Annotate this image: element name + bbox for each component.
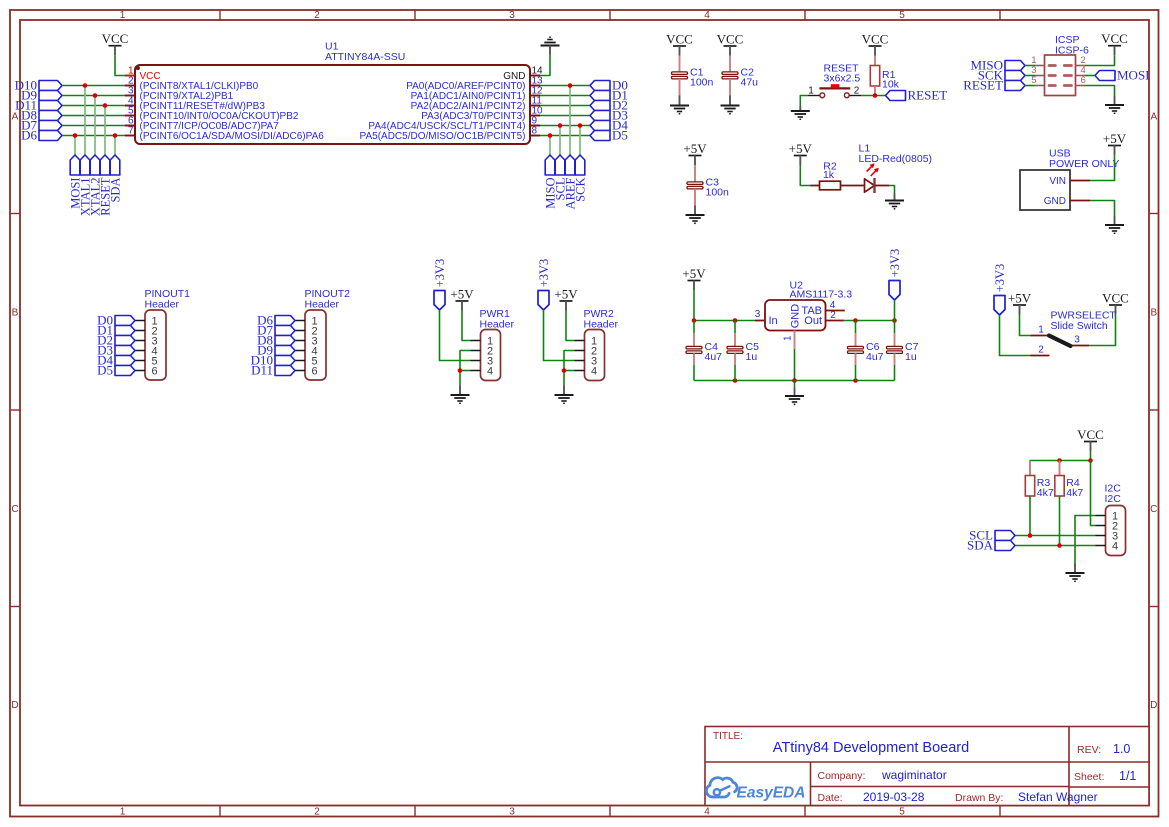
- svg-text:4k7: 4k7: [1066, 487, 1083, 499]
- svg-text:4: 4: [1112, 540, 1118, 552]
- wire U2 Out to +3V3 rail: [844, 320, 895, 322]
- ground (button): [791, 106, 810, 119]
- svg-text:POWER ONLY: POWER ONLY: [1049, 158, 1119, 170]
- svg-text:2: 2: [854, 85, 860, 96]
- power flag +5V (R2): [789, 141, 813, 165]
- net flag D7: [21, 118, 62, 133]
- U1 pin 12: [411, 86, 543, 102]
- wire VCC rail to R3/R4: [1030, 451, 1091, 476]
- ground (I2C): [1066, 564, 1085, 582]
- junction: [1028, 533, 1033, 538]
- svg-text:SDA: SDA: [967, 538, 994, 553]
- svg-text:I2C: I2C: [1105, 493, 1122, 505]
- svg-text:100n: 100n: [690, 76, 714, 88]
- connector I2C header: [1096, 483, 1126, 556]
- junction: [458, 368, 463, 373]
- power flag VCC (ICSP): [1101, 31, 1128, 55]
- svg-text:Header: Header: [145, 299, 180, 311]
- net flag D11: [15, 98, 62, 113]
- connector PWR1 Header: [471, 308, 515, 381]
- EasyEDA logo: [706, 778, 805, 802]
- svg-text:Stefan Wagner: Stefan Wagner: [1018, 790, 1098, 804]
- svg-text:Slide Switch: Slide Switch: [1051, 320, 1108, 332]
- svg-text:(PCINT6/OC1A/SDA/MOSI/DI/ADC6): (PCINT6/OC1A/SDA/MOSI/DI/ADC6)PA6: [140, 131, 325, 142]
- svg-text:SCK: SCK: [573, 178, 587, 202]
- net flag D4: [590, 118, 628, 133]
- wire D9 to U1: [62, 95, 125, 97]
- svg-text:EasyEDA: EasyEDA: [737, 784, 806, 801]
- svg-text:+3V3: +3V3: [537, 259, 551, 288]
- svg-text:wagiminator: wagiminator: [881, 768, 947, 782]
- svg-text:+5V: +5V: [450, 286, 474, 301]
- svg-text:AMS1117-3.3: AMS1117-3.3: [790, 289, 853, 301]
- junction: [733, 318, 738, 323]
- svg-text:4: 4: [487, 365, 493, 377]
- wire +5V to switch pin1: [1020, 315, 1031, 336]
- net flag D0 (PINOUT1): [97, 313, 135, 328]
- junction: [93, 93, 98, 98]
- wire SCK to ICSP: [1025, 75, 1035, 77]
- svg-text:Drawn By:: Drawn By:: [955, 792, 1003, 804]
- svg-text:1.0: 1.0: [1113, 742, 1130, 756]
- resistor R3 4k7: [1025, 461, 1054, 536]
- svg-text:5: 5: [1031, 75, 1036, 86]
- net flag D3: [590, 108, 628, 123]
- svg-text:+3V3: +3V3: [888, 249, 902, 278]
- junction: [113, 133, 118, 138]
- net flag D8 (PINOUT2): [257, 333, 295, 348]
- junction: [792, 378, 797, 383]
- power flag +3V3 (U2): [888, 249, 902, 300]
- svg-text:6: 6: [312, 365, 318, 377]
- power flag +3V3 (PWR1): [433, 259, 447, 310]
- junction: [103, 103, 108, 108]
- resistor R2 1k: [811, 161, 865, 190]
- U1 pin 14: [503, 66, 543, 82]
- wire stub to AREF flag: [569, 86, 571, 156]
- wire +5V to PWR1 pin1: [462, 311, 471, 341]
- regulator U2 AMS1117-3.3: [755, 280, 853, 349]
- svg-text:B: B: [1150, 308, 1157, 319]
- power flag +3V3 (PWRSELECT): [993, 264, 1007, 315]
- ground (USB): [1105, 216, 1124, 233]
- net flag D6: [21, 128, 62, 143]
- power flag +3V3 (PWR2): [537, 259, 551, 310]
- net flag MOSI (ICSP): [1095, 68, 1150, 83]
- junction: [853, 318, 858, 323]
- junction: [578, 123, 583, 128]
- svg-text:MOSI: MOSI: [1117, 68, 1150, 83]
- junction: [692, 318, 697, 323]
- wire SDA to I2C pin4: [1015, 545, 1096, 547]
- svg-text:2: 2: [1038, 345, 1044, 356]
- capacitor C2 47u: [722, 56, 758, 96]
- switch PWRSELECT Slide Switch: [1031, 309, 1117, 355]
- capacitor C6 4u7: [848, 333, 884, 365]
- power flag VCC (I2C): [1077, 427, 1104, 451]
- wire button pin2 to R1 and RESET flag: [861, 95, 886, 97]
- wire stub to MOSI flag: [74, 136, 76, 156]
- wire stub to SDA flag: [114, 136, 116, 156]
- svg-text:10k: 10k: [882, 79, 900, 91]
- net flag SCK (ICSP): [978, 68, 1025, 83]
- capacitor C5 1u: [727, 333, 759, 365]
- net flag D6 (PINOUT2): [257, 313, 295, 328]
- junction: [548, 133, 553, 138]
- ground (U2): [785, 381, 804, 405]
- resistor R4 4k7: [1055, 461, 1084, 546]
- svg-text:B: B: [12, 308, 19, 319]
- svg-text:VIN: VIN: [1049, 176, 1066, 187]
- svg-text:D: D: [11, 700, 18, 711]
- svg-text:2: 2: [830, 310, 836, 321]
- svg-text:4k7: 4k7: [1037, 487, 1054, 499]
- wire ICSP pin6 to ground: [1085, 86, 1115, 97]
- net flag XTAL2: [88, 155, 102, 216]
- svg-text:D11: D11: [251, 363, 273, 378]
- wire VCC to U1 pin 1: [115, 55, 125, 75]
- U1 pin 11: [411, 96, 543, 112]
- power flag +5V (PWR2): [554, 286, 578, 310]
- junction: [873, 93, 878, 98]
- svg-text:4: 4: [591, 365, 597, 377]
- net flag SCL: [553, 155, 567, 200]
- wire stub to RESET flag: [104, 106, 106, 156]
- svg-text:+3V3: +3V3: [993, 264, 1007, 293]
- wire +3V3 to PWR2 pin3: [544, 310, 575, 361]
- svg-text:D: D: [1150, 700, 1157, 711]
- wire +5V to R2: [800, 165, 810, 186]
- ground (C2): [721, 96, 740, 114]
- wire SCL to I2C pin3: [1015, 535, 1096, 537]
- wire MISO to ICSP: [1025, 65, 1035, 67]
- svg-text:+5V: +5V: [682, 266, 706, 281]
- connector USB POWER ONLY: [1020, 148, 1119, 210]
- wire C5 column: [734, 321, 736, 381]
- svg-text:47u: 47u: [741, 76, 759, 88]
- net flag SDA: [108, 155, 122, 203]
- svg-text:VCC: VCC: [666, 31, 693, 46]
- svg-text:+3V3: +3V3: [433, 259, 447, 288]
- U1 pin 13: [406, 76, 543, 92]
- svg-text:2019-03-28: 2019-03-28: [863, 790, 925, 804]
- net flag D11 (PINOUT2): [251, 363, 295, 378]
- net flag MOSI: [68, 155, 82, 209]
- wire ICSP pin4 to MOSI: [1085, 75, 1095, 77]
- junction: [568, 83, 573, 88]
- svg-text:Company:: Company:: [818, 770, 866, 782]
- svg-text:VCC: VCC: [1101, 31, 1128, 46]
- U1 pin 2: [125, 76, 259, 92]
- LED L1 LED-Red(0805): [859, 143, 933, 193]
- svg-text:VCC: VCC: [717, 31, 744, 46]
- net flag D1: [590, 88, 628, 103]
- net flag D2 (PINOUT1): [97, 333, 135, 348]
- net flag AREF: [563, 155, 577, 209]
- svg-text:4u7: 4u7: [866, 351, 884, 363]
- wire U1 pin 14 to ground: [540, 55, 550, 76]
- svg-text:1u: 1u: [746, 351, 758, 363]
- wire stub to SCL flag: [559, 126, 561, 156]
- power flag VCC (C2): [717, 31, 744, 55]
- wire U1 to D4: [540, 125, 590, 127]
- svg-text:3: 3: [755, 309, 761, 320]
- svg-text:C: C: [11, 504, 18, 515]
- power flag +5V (C3): [683, 141, 707, 165]
- wire +3V3 to PWR1 pin3: [440, 310, 471, 361]
- net flag D8: [21, 108, 62, 123]
- wire U1 to D2: [540, 105, 590, 107]
- power flag +5V (USB): [1103, 131, 1127, 155]
- wire U2 GND to ground bus: [794, 349, 796, 381]
- power flag VCC (C1): [666, 31, 693, 55]
- svg-text:REV:: REV:: [1077, 744, 1101, 756]
- wire +5V to U2 In: [694, 290, 755, 321]
- wire stub to XTAL2 flag: [94, 96, 96, 156]
- svg-text:+5V: +5V: [683, 141, 707, 156]
- svg-text:+5V: +5V: [1008, 290, 1032, 305]
- net flag SCK: [573, 155, 587, 202]
- svg-text:VCC: VCC: [102, 31, 129, 46]
- wire +5V to PWR2 pin1: [566, 311, 575, 341]
- connector PINOUT1 Header: [135, 288, 190, 380]
- svg-text:LED-Red(0805): LED-Red(0805): [859, 153, 933, 165]
- ground bus under U2: [694, 380, 895, 382]
- svg-text:VCC: VCC: [1102, 290, 1129, 305]
- junction: [558, 123, 563, 128]
- svg-text:3: 3: [509, 807, 515, 818]
- junction: [733, 378, 738, 383]
- wire PWR1 pin4 to ground rail: [460, 370, 471, 372]
- svg-text:5: 5: [899, 10, 905, 21]
- wire PWR1 pin2 to ground rail: [460, 351, 471, 386]
- svg-text:1/1: 1/1: [1119, 769, 1136, 783]
- wire C7 column: [894, 365, 896, 381]
- ground (U1 pin 14): [541, 37, 560, 54]
- svg-text:SDA: SDA: [108, 178, 122, 203]
- svg-text:C: C: [1150, 504, 1157, 515]
- svg-text:1u: 1u: [905, 351, 917, 363]
- svg-text:7: 7: [128, 126, 134, 137]
- U1 reference label: [325, 41, 405, 64]
- wire switch pin3 to VCC: [1089, 315, 1116, 346]
- capacitor C1 100n: [672, 56, 714, 96]
- wire USB GND to ground: [1090, 201, 1115, 217]
- wire ICSP pin2 to VCC: [1085, 55, 1115, 65]
- wire I2C pin1 to ground: [1075, 516, 1096, 564]
- svg-text:2: 2: [314, 10, 320, 21]
- svg-text:4u7: 4u7: [705, 351, 723, 363]
- ground (ICSP): [1105, 96, 1124, 113]
- wire +3V3 to switch pin2: [1000, 315, 1031, 356]
- ground (C3): [686, 206, 705, 224]
- svg-text:8: 8: [532, 126, 538, 137]
- net flag D2: [590, 98, 628, 113]
- svg-text:Date:: Date:: [818, 792, 843, 804]
- svg-text:4: 4: [704, 807, 710, 818]
- power flag +5V (PWRSELECT): [1008, 290, 1032, 314]
- wire I2C pin2 to VCC rail: [1091, 461, 1096, 526]
- svg-text:1: 1: [782, 335, 793, 341]
- junction: [853, 378, 858, 383]
- svg-text:1: 1: [120, 807, 126, 818]
- svg-text:In: In: [769, 315, 778, 327]
- net flag D5 (PINOUT1): [97, 363, 135, 378]
- title block: [705, 727, 1149, 806]
- pushbutton RESET 3x6x2.5: [808, 63, 861, 98]
- svg-text:D6: D6: [21, 128, 37, 143]
- svg-text:3: 3: [1074, 335, 1080, 346]
- wire D8 to U1: [62, 115, 125, 117]
- svg-text:100n: 100n: [706, 186, 730, 198]
- wire U1 to D5: [540, 135, 590, 137]
- wire USB VIN to +5V: [1090, 155, 1115, 181]
- junction: [1088, 458, 1093, 463]
- U1 pin 6: [125, 116, 279, 132]
- svg-text:6: 6: [152, 365, 158, 377]
- ground (PWR1): [451, 386, 470, 404]
- svg-text:1k: 1k: [823, 169, 835, 181]
- ground (PWR2): [555, 386, 574, 404]
- junction: [1057, 458, 1062, 463]
- net flag D7 (PINOUT2): [257, 323, 295, 338]
- ground (C1): [670, 96, 689, 114]
- junction: [562, 368, 567, 373]
- IC U1 ATTINY84A-SSU body: [135, 65, 530, 144]
- wire stub to XTAL1 flag: [84, 86, 86, 156]
- U1 pin 5: [125, 106, 299, 122]
- svg-text:2: 2: [314, 807, 320, 818]
- capacitor C3 100n: [687, 165, 729, 206]
- connector PINOUT2 Header: [295, 288, 350, 380]
- svg-text:A: A: [1150, 112, 1157, 123]
- wire D6 to U1: [62, 135, 125, 137]
- net flag XTAL1: [78, 155, 92, 216]
- wire PWR2 pin2 to ground rail: [564, 351, 575, 386]
- svg-text:Out: Out: [804, 315, 822, 327]
- svg-text:6: 6: [1081, 75, 1086, 86]
- wire +3V3 down to C7: [894, 300, 896, 333]
- resistor R1 10k: [870, 56, 899, 96]
- U1 pin 10: [421, 106, 543, 122]
- U1 pin 8: [360, 126, 540, 142]
- wire U1 to D3: [540, 115, 590, 117]
- U1 pin 1: [125, 66, 161, 82]
- net flag D9 (PINOUT2): [257, 343, 295, 358]
- U1 pin 3: [125, 86, 234, 102]
- svg-text:RESET: RESET: [963, 78, 1003, 93]
- wire PWR2 pin4 to ground rail: [564, 370, 575, 372]
- wire RESET to ICSP: [1025, 85, 1035, 87]
- net flag D3 (PINOUT1): [97, 343, 135, 358]
- wire D7 to U1: [62, 125, 125, 127]
- wire C4 column: [693, 321, 695, 381]
- power flag VCC (PWRSELECT): [1102, 290, 1129, 314]
- svg-text:+5V: +5V: [1103, 131, 1127, 146]
- net flag D10 (PINOUT2): [251, 353, 295, 368]
- power flag +5V (U2): [682, 266, 706, 290]
- svg-text:ATTINY84A-SSU: ATTINY84A-SSU: [325, 51, 405, 63]
- svg-text:4: 4: [704, 10, 710, 21]
- net flag SDA: [967, 538, 1015, 553]
- net flag D9: [21, 88, 62, 103]
- junction: [83, 83, 88, 88]
- svg-text:+5V: +5V: [789, 141, 813, 156]
- junction: [892, 318, 897, 323]
- svg-text:TITLE:: TITLE:: [713, 731, 743, 742]
- svg-text:3: 3: [509, 10, 515, 21]
- svg-text:A: A: [12, 112, 19, 123]
- wire stub to MISO flag: [549, 136, 551, 156]
- wire stub to SCK flag: [579, 126, 581, 156]
- net flag MISO: [543, 155, 557, 209]
- power flag +5V (PWR1): [450, 286, 474, 310]
- net flag D0: [590, 78, 628, 93]
- svg-text:1: 1: [808, 85, 814, 96]
- svg-text:ATtiny84 Development Boeard: ATtiny84 Development Boeard: [773, 740, 969, 756]
- net flag MISO (ICSP): [970, 58, 1025, 73]
- wire D10 to U1: [62, 85, 125, 87]
- connector PWR2 Header: [575, 308, 619, 381]
- power flag VCC (U1): [102, 31, 129, 55]
- net flag RESET: [886, 88, 948, 103]
- net flag D10: [15, 78, 62, 93]
- junction: [73, 133, 78, 138]
- net flag D5: [590, 128, 628, 143]
- power flag VCC (R1): [862, 31, 889, 55]
- wire U1 to D1: [540, 95, 590, 97]
- svg-text:VCC: VCC: [1077, 427, 1104, 442]
- capacitor C4 4u7: [686, 333, 722, 365]
- svg-text:RESET: RESET: [908, 88, 948, 103]
- net flag SCL: [969, 528, 1015, 543]
- net flag RESET: [98, 155, 112, 216]
- connector ICSP ICSP-6: [1031, 34, 1089, 95]
- U1 pin 7: [125, 126, 324, 142]
- svg-text:PA5(ADC5/DO/MISO/OC1B/PCINT5): PA5(ADC5/DO/MISO/OC1B/PCINT5): [360, 131, 526, 142]
- net flag D4 (PINOUT1): [97, 353, 135, 368]
- svg-text:GND: GND: [790, 304, 802, 329]
- svg-text:3x6x2.5: 3x6x2.5: [824, 72, 861, 84]
- junction: [1057, 543, 1062, 548]
- U1 pin 9: [368, 116, 540, 132]
- net flag RESET (ICSP): [963, 78, 1025, 93]
- svg-text:GND: GND: [1044, 196, 1066, 207]
- svg-text:1: 1: [1038, 325, 1044, 336]
- wire C6 column: [855, 321, 857, 381]
- svg-text:D5: D5: [97, 363, 113, 378]
- svg-text:1: 1: [120, 10, 126, 21]
- net flag D1 (PINOUT1): [97, 323, 135, 338]
- svg-text:Sheet:: Sheet:: [1074, 771, 1104, 783]
- wire U1 to D0: [540, 85, 590, 87]
- capacitor C7 1u: [887, 333, 919, 365]
- wire button pin1 to ground: [800, 96, 808, 107]
- svg-text:Header: Header: [305, 299, 340, 311]
- U1 pin 4: [125, 96, 265, 112]
- svg-text:VCC: VCC: [862, 31, 889, 46]
- svg-text:+5V: +5V: [554, 286, 578, 301]
- ground (LED): [885, 194, 904, 209]
- svg-text:D5: D5: [612, 128, 628, 143]
- wire D11 to U1: [62, 105, 125, 107]
- svg-text:5: 5: [899, 807, 905, 818]
- wire LED to ground: [889, 186, 895, 194]
